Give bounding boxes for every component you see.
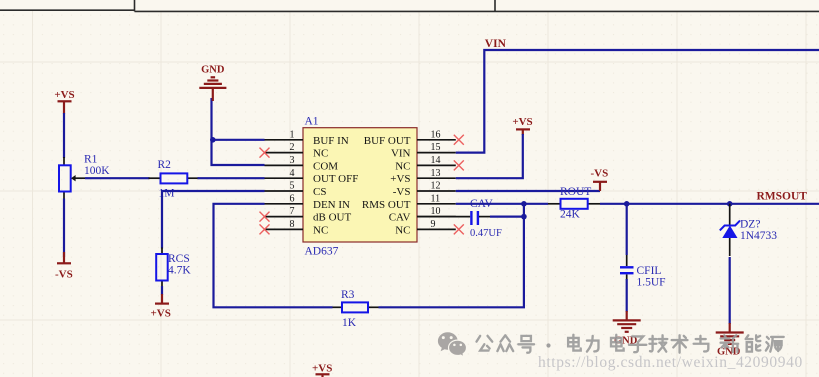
no-ERC X pin 8	[260, 224, 270, 234]
svg-text:4.7K: 4.7K	[168, 265, 191, 277]
no-ERC X pin 2	[260, 148, 270, 158]
svg-text:1M: 1M	[159, 188, 175, 200]
svg-text:3: 3	[290, 155, 295, 166]
wire pin 12 to -VS	[456, 190, 600, 192]
svg-text:8: 8	[290, 219, 295, 230]
power -VS (right)	[591, 168, 609, 192]
svg-text:NC: NC	[313, 148, 328, 160]
resistor R2	[149, 159, 199, 200]
svg-text:9: 9	[431, 219, 436, 230]
power +VS (top left)	[54, 89, 74, 114]
ground GND (below CFIL)	[613, 311, 641, 347]
svg-text:+VS: +VS	[312, 363, 332, 375]
svg-text:+VS: +VS	[54, 89, 74, 101]
junction dot at pin1/GND	[210, 137, 216, 143]
svg-text:VIN: VIN	[485, 38, 507, 50]
power +VS (right, above IC)	[512, 116, 532, 135]
resistor R3	[333, 289, 379, 329]
wire pin 5 (CS) to RCS	[162, 191, 265, 249]
capacitor CAV	[417, 198, 502, 239]
svg-text:16: 16	[431, 129, 441, 140]
svg-text:RCS: RCS	[168, 253, 190, 265]
wire R1 wiper to R2	[85, 177, 150, 179]
IC A1 pin names left column	[313, 135, 358, 237]
svg-text:1K: 1K	[342, 317, 357, 329]
no-ERC X pin 16	[454, 135, 464, 145]
wire zener to ground	[729, 257, 731, 324]
power +VS (below RCS, pointing down)	[151, 294, 171, 320]
svg-text:0.47UF: 0.47UF	[470, 228, 502, 239]
IC A1 pin numbers left (1-8)	[290, 129, 295, 230]
wire GND net vertical to pins 1 and 3	[212, 98, 265, 165]
IC A1 pin stubs right (pins 16-9)	[417, 140, 456, 230]
ground GND (below zener)	[716, 323, 744, 358]
svg-text:-VS: -VS	[55, 269, 73, 281]
svg-text:CAV: CAV	[389, 212, 411, 224]
svg-text:NC: NC	[313, 224, 328, 236]
svg-text:OUT OFF: OUT OFF	[313, 173, 358, 185]
junction dot R3/CAV	[521, 214, 527, 220]
svg-text:7: 7	[290, 206, 295, 217]
svg-text:24K: 24K	[560, 209, 581, 221]
svg-text:RMS OUT: RMS OUT	[362, 199, 411, 211]
svg-text:15: 15	[431, 142, 441, 153]
svg-text:NC: NC	[395, 160, 410, 172]
watermark wechat icon	[438, 332, 467, 357]
wire pin 6 (DEN IN) down to R3	[214, 204, 333, 307]
svg-text:ROUT: ROUT	[560, 186, 591, 198]
junction dot CFIL branch	[624, 201, 630, 207]
wire R2 to pin 4	[198, 177, 265, 179]
svg-text:10: 10	[431, 206, 441, 217]
svg-text:100K: 100K	[84, 165, 110, 177]
junction dot zener branch	[727, 201, 733, 207]
svg-text:R2: R2	[158, 159, 172, 171]
svg-text:dB OUT: dB OUT	[313, 212, 351, 224]
svg-text:VIN: VIN	[391, 148, 411, 160]
svg-text:+VS: +VS	[151, 308, 171, 320]
capacitor CFIL	[620, 255, 666, 289]
diode DZ 1N4733 zener	[720, 204, 778, 256]
resistor RCS	[156, 248, 191, 288]
IC A1 pin stubs left (pins 1-8)	[265, 140, 304, 230]
svg-text:-VS: -VS	[591, 168, 609, 180]
svg-text:1: 1	[290, 129, 295, 140]
no-ERC X pin 9	[454, 224, 464, 234]
svg-text:R3: R3	[341, 289, 355, 301]
power -VS (bottom of R1)	[55, 252, 73, 281]
junction dot R3/RMS	[521, 201, 527, 207]
wire CFIL branch down	[626, 204, 628, 255]
IC A1 pin numbers right (16-9)	[431, 129, 441, 230]
wire +VS to R1 top	[63, 113, 65, 158]
wire +VS to pin 13	[456, 134, 523, 178]
svg-text:13: 13	[431, 168, 441, 179]
svg-text:4: 4	[290, 168, 295, 179]
svg-text:R1: R1	[84, 154, 98, 166]
wire VIN from pin 15 to top edge	[456, 50, 819, 153]
wire CAV to R3 vertical	[490, 216, 524, 218]
wire RMS OUT line pin 11 to ROUT	[456, 203, 548, 205]
wire RCS to +VS (bottom left)	[161, 286, 163, 295]
wire ROUT to RMSOUT right edge	[600, 203, 819, 205]
svg-text:-VS: -VS	[393, 186, 411, 198]
svg-text:1.5UF: 1.5UF	[637, 277, 666, 289]
svg-text:6: 6	[290, 193, 295, 204]
wire R3 right up to RMS line	[379, 204, 524, 307]
svg-text:BUF IN: BUF IN	[313, 135, 349, 147]
svg-text:14: 14	[431, 155, 441, 166]
IC A1 AD637 body	[303, 116, 417, 258]
svg-text:COM: COM	[313, 160, 338, 172]
no-ERC X pin 7	[260, 212, 270, 222]
svg-text:BUF OUT: BUF OUT	[364, 135, 411, 147]
svg-text:1N4733: 1N4733	[740, 230, 777, 242]
svg-text:NC: NC	[395, 224, 410, 236]
svg-text:AD637: AD637	[305, 246, 339, 258]
svg-text:A1: A1	[305, 116, 319, 128]
svg-text:CFIL: CFIL	[637, 265, 662, 277]
IC A1 pin names right column	[362, 135, 411, 237]
svg-text:https://blog.csdn.net/weixin_4: https://blog.csdn.net/weixin_42090940	[538, 354, 803, 371]
svg-text:11: 11	[431, 193, 441, 204]
svg-text:+VS: +VS	[390, 173, 410, 185]
svg-text:RMSOUT: RMSOUT	[757, 191, 808, 203]
svg-text:2: 2	[290, 142, 295, 153]
ground GND (top, above IC)	[199, 65, 226, 102]
svg-text:DZ?: DZ?	[740, 219, 760, 231]
wire R1 bottom to -VS	[63, 199, 65, 258]
resistor R1 potentiometer	[59, 154, 110, 200]
svg-text:CS: CS	[313, 186, 326, 198]
wire CFIL to ground	[626, 279, 628, 312]
svg-text:GND: GND	[201, 65, 225, 76]
resistor ROUT	[548, 186, 600, 221]
svg-text:+VS: +VS	[512, 116, 532, 128]
svg-text:DEN IN: DEN IN	[313, 199, 350, 211]
no-ERC X pin 14	[454, 160, 464, 170]
svg-text:12: 12	[431, 181, 441, 192]
power +VS (bottom centre, cut off)	[312, 363, 332, 377]
watermark text 公众号·电力电子技术与新能源 (vector strokes)	[477, 335, 784, 353]
svg-text:5: 5	[290, 181, 295, 192]
